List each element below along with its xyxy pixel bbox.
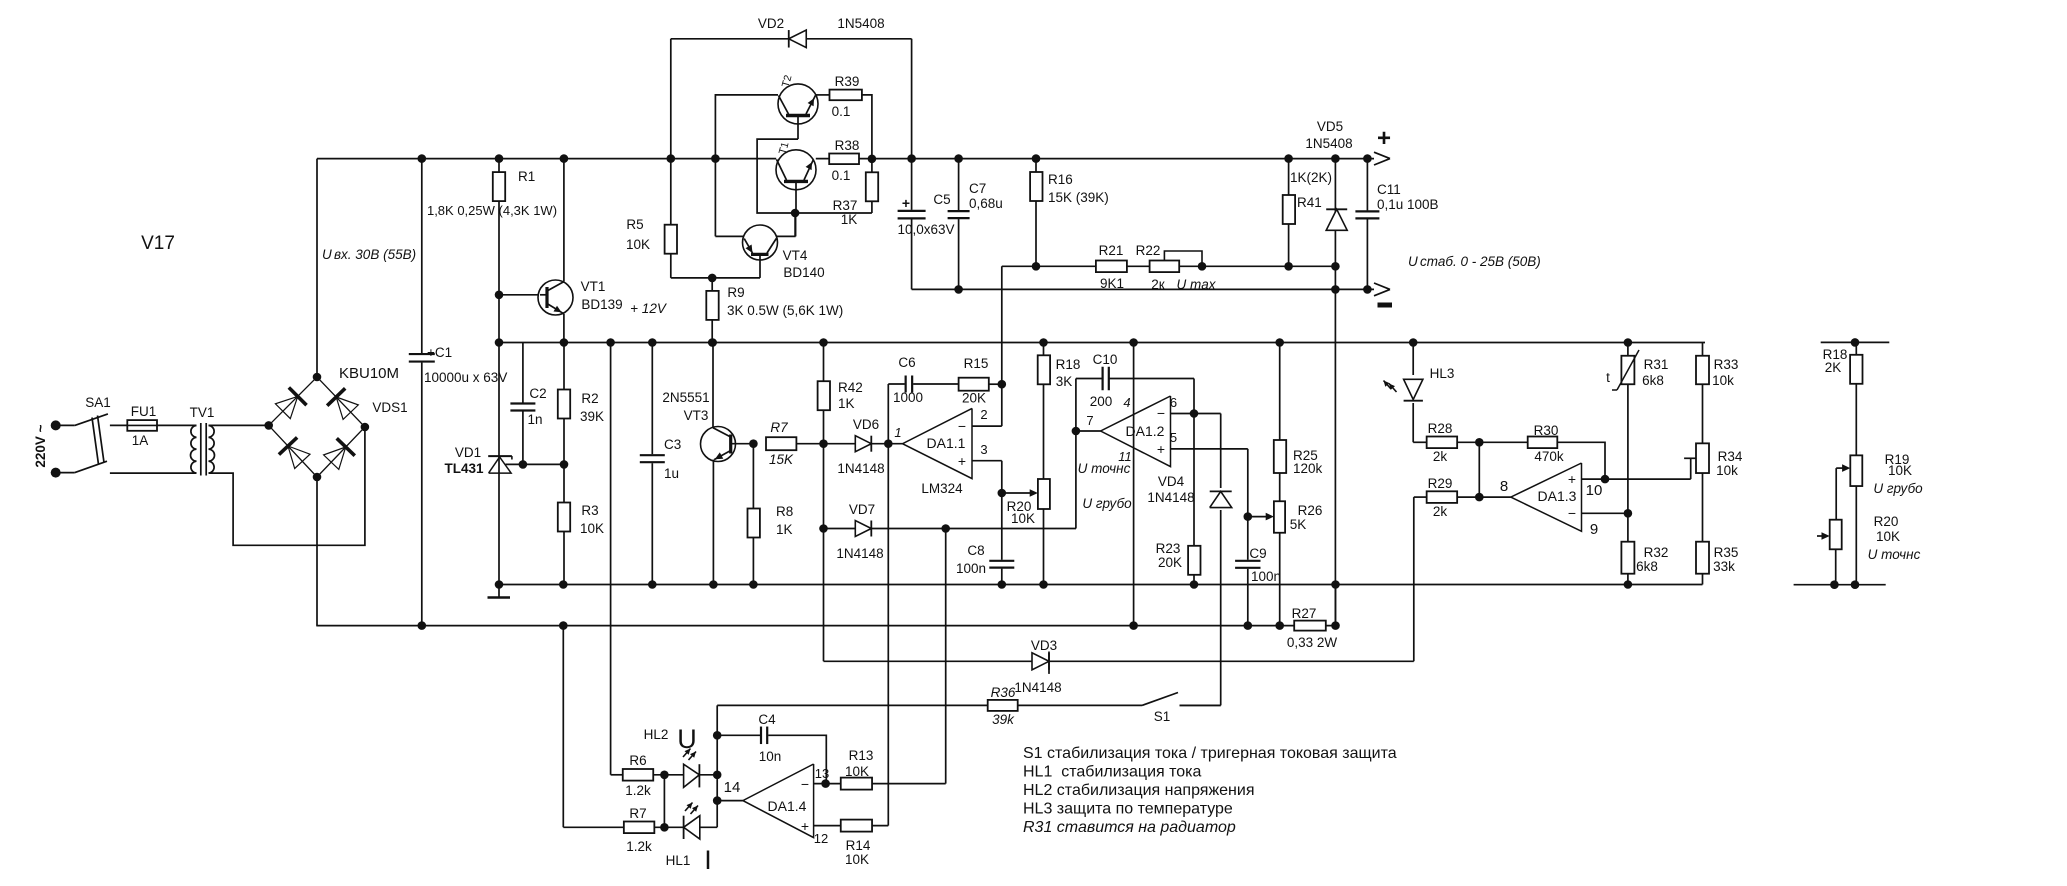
wire DA1.1 output vertical (887, 384, 889, 826)
svg-text:R18: R18 (1056, 357, 1081, 372)
node right R18 top (1851, 338, 1860, 347)
node 220V top terminal (51, 420, 61, 430)
svg-text:R34: R34 (1718, 449, 1743, 464)
node HL2 anode (660, 771, 669, 780)
wire R7 to VD6 node (796, 443, 855, 445)
wire DA1.2 power line (pins 4/11) (1133, 343, 1135, 625)
transistor VT3 2N5551 (701, 427, 736, 462)
node R3 bottom ground (559, 580, 568, 589)
svg-text:KBU10M: KBU10M (339, 365, 399, 382)
wire VD1 branch (498, 295, 500, 343)
svg-text:6: 6 (1170, 395, 1177, 410)
svg-text:4: 4 (1123, 395, 1130, 410)
wire R18/R20 branch (1043, 343, 1045, 585)
svg-text:100n: 100n (956, 561, 986, 576)
svg-text:HL3 защита по температуре: HL3 защита по температуре (1023, 801, 1233, 818)
svg-text:VD3: VD3 (1031, 638, 1057, 653)
capacitor C1 (421, 159, 423, 626)
wire C10 right to pin6 (1109, 378, 1194, 380)
node R7 left (749, 439, 758, 448)
node bridge minus bottom (313, 473, 322, 482)
wire DA1.4 output vertical (716, 705, 718, 827)
wire VT4 base to R9 node (712, 277, 760, 279)
svg-text:HL3: HL3 (1430, 366, 1455, 381)
bridge diode D2 (right-top edge) (336, 397, 358, 419)
node VD7 anode junction (819, 524, 828, 533)
wire C6 line (888, 383, 906, 385)
wire pin10 (1582, 478, 1691, 480)
wire pin3 (972, 460, 1002, 462)
svg-text:R27: R27 (1292, 606, 1317, 621)
svg-text:10: 10 (1586, 482, 1603, 499)
svg-text:R7: R7 (770, 420, 788, 435)
capacitor C6 (905, 375, 914, 394)
wire trigger hold line (824, 660, 1414, 662)
transistor VT1 BD139 (538, 280, 573, 315)
node C1 top (418, 154, 427, 163)
node VD5 on Umax line (1331, 262, 1340, 271)
node VD5 on minus rail (1331, 285, 1340, 294)
svg-text:+: + (1157, 441, 1165, 457)
svg-text:0,1u 100В: 0,1u 100В (1377, 197, 1439, 212)
svg-text:U: U (677, 724, 697, 754)
svg-text:R33: R33 (1714, 357, 1739, 372)
wiper arrow to R20 (1002, 492, 1031, 494)
svg-text:2k: 2k (1433, 449, 1448, 464)
svg-text:3: 3 (980, 442, 987, 457)
resistor R3 (558, 503, 570, 532)
wire R16 branch (1035, 159, 1037, 267)
wire R1 branch (498, 159, 500, 295)
svg-text:R13: R13 (849, 748, 874, 763)
svg-text:R36: R36 (991, 685, 1016, 700)
node R2/R3 junction (560, 460, 569, 469)
trimmer R22 (1150, 261, 1180, 273)
node C11 top (1363, 154, 1372, 163)
resistor R41 (1283, 195, 1295, 224)
svg-text:−: − (801, 776, 809, 792)
node R7b top (559, 621, 568, 630)
node pin6 junction (1190, 409, 1199, 418)
resistor R6 (623, 769, 654, 781)
node pin5/R26 wiper junction (1244, 512, 1253, 521)
svg-text:1K: 1K (776, 522, 793, 537)
wire VD2 top line (671, 38, 912, 40)
svg-text:33k: 33k (1713, 559, 1735, 574)
output arrow plus (1374, 152, 1390, 158)
svg-text:6k8: 6k8 (1642, 373, 1664, 388)
op-amp DA1.2 (1101, 396, 1171, 467)
svg-text:+: + (1377, 125, 1391, 152)
node R9 bottom on +12V rail (708, 338, 717, 347)
node VT1 base junction (495, 291, 504, 300)
svg-text:1000: 1000 (893, 390, 923, 405)
resistor R13 (841, 778, 872, 790)
wire VT1 collector (563, 159, 565, 282)
node pin3 wiper junction (998, 489, 1007, 498)
svg-text:U точнс: U точнс (1078, 461, 1131, 476)
svg-text:14: 14 (724, 779, 741, 796)
node VT3 emitter ground (709, 580, 718, 589)
svg-text:V17: V17 (141, 233, 175, 254)
svg-text:R2: R2 (581, 391, 598, 406)
node R42 top (819, 338, 828, 347)
wire S1 line (717, 704, 988, 706)
svg-text:FU1: FU1 (131, 404, 157, 419)
resistor R39 (830, 90, 862, 101)
node R41 bottom (1284, 262, 1293, 271)
svg-text:R22: R22 (1136, 243, 1161, 258)
svg-text:C11: C11 (1377, 182, 1401, 197)
svg-text:U: U (322, 247, 332, 262)
node right R20 bottom (1830, 580, 1839, 589)
resistor R2 (558, 390, 570, 419)
node VT1 collector (560, 154, 569, 163)
wire Umax feedback line (1002, 265, 1336, 267)
svg-text:1N4148: 1N4148 (836, 546, 883, 561)
capacitor C2 (522, 343, 524, 465)
svg-text:6k8: 6k8 (1636, 559, 1658, 574)
led HL2 arrows (683, 749, 691, 758)
node C9 bottom (1244, 621, 1253, 630)
svg-text:3K 0.5W (5,6K 1W): 3K 0.5W (5,6K 1W) (727, 303, 843, 318)
svg-text:LM324: LM324 (921, 481, 963, 496)
wire T2 emitter to R39 (816, 94, 830, 96)
svg-text:1.2k: 1.2k (625, 783, 651, 798)
diode VD6 1N4148 (855, 436, 871, 452)
wiper R20 right (1817, 535, 1823, 537)
svg-text:10,0x63V: 10,0x63V (897, 222, 954, 237)
node R16 top (1032, 154, 1041, 163)
wire pin13 (814, 783, 841, 785)
bridge diode D1 (left-top edge) (275, 396, 297, 418)
svg-text:1N5408: 1N5408 (837, 16, 884, 31)
led HL3 arrows (1384, 381, 1392, 390)
wire VD2 left leg (670, 39, 672, 159)
svg-text:R14: R14 (846, 838, 871, 853)
node C11 bottom (1363, 285, 1372, 294)
potentiometer R20 (1038, 479, 1050, 509)
wire HL3 branch (1412, 343, 1414, 443)
svg-text:R30: R30 (1534, 423, 1559, 438)
wire R33/R34/R35 branch (1702, 343, 1704, 585)
svg-text:470k: 470k (1534, 449, 1564, 464)
svg-text:0.1: 0.1 (832, 168, 851, 183)
svg-text:C3: C3 (664, 437, 681, 452)
node R38 right / R37 top (868, 155, 877, 164)
wire S1 right (1180, 704, 1221, 706)
svg-text:R15: R15 (964, 356, 989, 371)
wire R31/R32 branch (1627, 343, 1629, 585)
svg-text:20K: 20K (1158, 555, 1182, 570)
svg-text:5: 5 (1170, 430, 1177, 445)
wire R42 branch (823, 343, 825, 444)
wiper arrow to R26 (1248, 516, 1267, 518)
svg-text:R3: R3 (581, 503, 598, 518)
svg-text:R42: R42 (838, 380, 863, 395)
wiper R19 (1836, 467, 1843, 469)
svg-text:1,8K 0,25W (4,3K 1W): 1,8K 0,25W (4,3K 1W) (427, 203, 557, 218)
svg-text:S1 стабилизация тока / тригерн: S1 стабилизация тока / тригерная токовая… (1023, 745, 1397, 762)
wire right divider bottom rail (1794, 584, 1886, 586)
transistor VT4 BD140 (715, 235, 744, 237)
svg-text:R31 ставится на радиатор: R31 ставится на радиатор (1023, 819, 1236, 836)
svg-text:120k: 120k (1293, 461, 1323, 476)
wire R6 branch (610, 343, 612, 775)
node pin9 junction (1624, 509, 1633, 518)
svg-text:вх. 30В (55В): вх. 30В (55В) (334, 247, 416, 262)
svg-text:HL1 стабилизация тока: HL1 стабилизация тока (1023, 764, 1202, 781)
svg-text:R37: R37 (833, 198, 858, 213)
resistor R8 (748, 509, 760, 538)
node VD6 anode junction (819, 439, 828, 448)
op-amp DA1.1 (903, 408, 973, 478)
resistor R18 (2K) (1850, 355, 1862, 384)
wire -raw bottom rail (316, 625, 1335, 627)
wire pin12 (814, 825, 841, 827)
svg-text:HL2: HL2 (644, 727, 669, 742)
wire HL1/HL2 tie (663, 775, 665, 828)
svg-text:U грубо: U грубо (1873, 481, 1923, 496)
wire R15 to pin2 node (989, 383, 1002, 385)
capacitor C8 (988, 560, 1015, 569)
resistor R5 (665, 225, 677, 254)
resistor R7 (1.2k) (624, 822, 655, 834)
svg-text:R35: R35 (1714, 545, 1739, 560)
wire R30 line (1479, 441, 1527, 443)
svg-text:VT4: VT4 (783, 248, 808, 263)
resistor R23 (1188, 546, 1200, 575)
bridge diode D4 (bottom-right edge) (324, 447, 346, 469)
diode VD1 TL431 (488, 455, 512, 457)
svg-text:C10: C10 (1093, 352, 1118, 367)
node DA1.2 power top (1129, 338, 1138, 347)
bridge diamond wires (269, 377, 365, 477)
svg-text:10K: 10K (1876, 529, 1900, 544)
potentiometer R19 (1850, 455, 1862, 486)
resistor R18 3K (1038, 355, 1050, 384)
wire TL431 ref to R2/R3 (523, 463, 564, 465)
svg-text:3K: 3K (1056, 374, 1073, 389)
svg-text:1K: 1K (841, 212, 858, 227)
wire trigger junction vertical (945, 529, 947, 784)
svg-text:R31: R31 (1644, 357, 1669, 372)
svg-text:+: + (958, 453, 966, 469)
node VD7 to DA1.4 junction (941, 524, 950, 533)
svg-text:1n: 1n (527, 412, 542, 427)
wire 220V bottom terminal lead (56, 472, 75, 474)
svg-text:1.2k: 1.2k (626, 839, 652, 854)
wire SA1 to FU1 (110, 424, 127, 426)
svg-text:+: + (902, 195, 910, 211)
svg-text:S1: S1 (1154, 709, 1171, 724)
wire VT3 emitter (712, 460, 714, 585)
svg-text:t: t (1606, 370, 1610, 385)
potentiometer R20 (right) (1830, 520, 1842, 550)
resistor R1 (493, 172, 505, 201)
wire pin2 (972, 425, 1002, 427)
svg-text:1N4148: 1N4148 (1147, 490, 1194, 505)
svg-text:R6: R6 (629, 753, 646, 768)
svg-text:0,33 2W: 0,33 2W (1287, 635, 1338, 650)
wire HL1 right (700, 826, 717, 828)
wire C10 left (1076, 378, 1103, 380)
resistor R38 (829, 154, 859, 165)
wire R2 R3 branch (563, 343, 565, 585)
svg-text:−: − (1157, 405, 1165, 421)
resistor R42 (818, 381, 830, 410)
svg-text:10000u x 63V: 10000u x 63V (424, 370, 507, 385)
node R25 top (1275, 338, 1284, 347)
svg-text:1A: 1A (132, 433, 149, 448)
node R20 bottom ground (1039, 580, 1048, 589)
svg-text:0.1: 0.1 (832, 104, 851, 119)
svg-text:2K: 2K (1825, 360, 1842, 375)
node T2 collector rail (711, 154, 720, 163)
svg-text:VDS1: VDS1 (372, 400, 407, 415)
led HL2 (684, 764, 700, 787)
wire VT1 emitter (563, 314, 565, 343)
svg-text:TV1: TV1 (190, 405, 215, 420)
svg-text:R7: R7 (629, 806, 646, 821)
node C7 top (954, 154, 963, 163)
diode VD3 1N4148 (1032, 653, 1049, 670)
svg-text:DA1.2: DA1.2 (1126, 423, 1165, 439)
fuse FU1 (127, 424, 157, 426)
svg-text:+ 12V: + 12V (630, 301, 668, 316)
node right R19 bottom (1851, 580, 1860, 589)
node bridge AC left (264, 421, 273, 430)
node C3 bottom (648, 580, 657, 589)
svg-text:R16: R16 (1048, 172, 1073, 187)
node VD5 line on ground rail (1331, 580, 1340, 589)
wire VD5 branch (1334, 159, 1336, 626)
svg-text:R29: R29 (1428, 476, 1453, 491)
wire bridge top to +raw rail (316, 159, 318, 377)
wire +12V rail (499, 342, 1705, 344)
node R23 bottom ground (1190, 580, 1199, 589)
switch S1 blade (1142, 693, 1178, 706)
transistor T1 (776, 150, 816, 190)
resistor R28 (1427, 437, 1458, 449)
bridge diode D3 (bottom-left edge) (288, 446, 310, 469)
wire R29 line from trigger (1413, 497, 1415, 661)
node bridge plus top (313, 373, 322, 382)
wire R37 leads (871, 159, 873, 213)
wire +raw top rail (317, 158, 776, 160)
svg-text:VD2: VD2 (758, 16, 784, 31)
svg-text:10K: 10K (1011, 511, 1035, 526)
switch SA1 blade bottom (75, 461, 107, 472)
node R27 right (1331, 621, 1340, 630)
svg-text:R9: R9 (727, 285, 744, 300)
svg-text:10k: 10k (1712, 373, 1734, 388)
transformer TV1 core (200, 423, 202, 476)
capacitor C11 (1366, 159, 1368, 290)
svg-text:VD6: VD6 (853, 417, 879, 432)
svg-text:10K: 10K (845, 852, 869, 867)
node bridge AC right (361, 423, 370, 432)
svg-text:R8: R8 (776, 504, 793, 519)
svg-text:R26: R26 (1298, 503, 1323, 518)
node pin10 junction (1601, 475, 1610, 484)
wire T2 collector run (715, 95, 778, 237)
wire bridge bottom to -raw rail (316, 477, 318, 626)
capacitor C5 (897, 210, 927, 220)
resistor R37 (866, 172, 878, 201)
svg-text:C7: C7 (969, 181, 986, 196)
svg-text:I: I (704, 845, 712, 875)
potentiometer R26 (1274, 501, 1285, 533)
svg-text:VT3: VT3 (684, 408, 709, 423)
svg-text:SA1: SA1 (85, 395, 111, 410)
diode VD2 1N5408 (789, 30, 807, 48)
svg-text:R21: R21 (1099, 243, 1124, 258)
node R1 top (495, 154, 504, 163)
svg-text:−: − (1568, 505, 1576, 521)
node R29 right / pin8 (1475, 493, 1484, 502)
resistor R32 (1621, 542, 1634, 574)
resistor R15 (959, 378, 989, 391)
svg-text:+: + (801, 818, 809, 834)
wire R41 branch (1288, 159, 1290, 267)
wire R39 to right leg (862, 95, 872, 159)
svg-text:TL431: TL431 (444, 461, 484, 476)
ground symbol (498, 585, 500, 598)
svg-text:R1: R1 (518, 169, 535, 184)
wire VD7 line (824, 528, 1077, 530)
wire R6 right to HL2 (653, 774, 683, 776)
wire R7b right to HL1 (655, 826, 684, 828)
svg-text:12: 12 (814, 831, 828, 846)
node R22 wiper return (1198, 262, 1207, 271)
svg-text:2N5551: 2N5551 (662, 390, 709, 405)
svg-text:10K: 10K (626, 237, 650, 252)
capacitor C4 (760, 726, 768, 746)
svg-text:R5: R5 (626, 217, 643, 232)
svg-text:2к: 2к (1151, 277, 1165, 292)
node R15 right (998, 380, 1007, 389)
potentiometer R34 (1696, 443, 1709, 473)
wire R36 to S1 (1018, 704, 1142, 706)
node HL2 cathode junction (713, 771, 722, 780)
wire control ground rail (499, 584, 1703, 586)
diode VD7 1N4148 (855, 521, 871, 537)
op-amp DA1.3 (1511, 463, 1582, 531)
svg-text:5K: 5K (1290, 517, 1307, 532)
wire pin9 (1582, 512, 1628, 514)
wire VT1 base (499, 294, 547, 296)
wire VD6 to DA1.1 output (871, 443, 902, 445)
svg-text:15K (39K): 15K (39K) (1048, 190, 1109, 205)
node VT3 collector on rail (708, 338, 717, 347)
svg-text:R38: R38 (835, 138, 860, 153)
svg-text:VD7: VD7 (849, 502, 875, 517)
resistor R33 (1696, 356, 1709, 385)
svg-text:39k: 39k (992, 712, 1015, 727)
wire R14 right to DA1.1 output (872, 825, 888, 827)
svg-text:20K: 20K (962, 391, 986, 406)
svg-text:HL2 стабилизация напряжения: HL2 стабилизация напряжения (1023, 782, 1254, 799)
svg-text:1: 1 (894, 425, 901, 440)
wire DA1.2 output (1076, 430, 1101, 432)
svg-text:R41: R41 (1297, 195, 1322, 210)
transformer TV1 primary winding (191, 425, 197, 437)
svg-text:+C1: +C1 (427, 345, 452, 360)
svg-text:U грубо: U грубо (1082, 496, 1132, 511)
svg-text:10K: 10K (845, 764, 869, 779)
wire VD7 junction branch (823, 444, 825, 662)
